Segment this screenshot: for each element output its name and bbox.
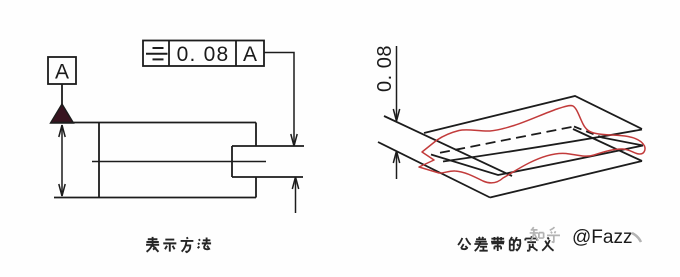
rotated dimension text 0.08 (374, 45, 396, 92)
red actual surface wavy loop (419, 106, 645, 183)
lower pointing arrow at slot bottom (292, 177, 298, 213)
lower tolerance plane back right edge (573, 129, 642, 161)
datum stem wire (61, 84, 63, 105)
median plane back right solid end (602, 138, 643, 146)
lower extension line continuing as lower plane left edge (378, 142, 490, 198)
svg-text:A: A (243, 43, 257, 66)
watermark dun comma (632, 233, 641, 242)
svg-text:@Fazz: @Fazz (572, 227, 632, 248)
part right edge upper segment (255, 123, 257, 147)
datum reference letter A in frame (243, 43, 257, 66)
part left edge (98, 123, 100, 198)
median plane front edges (431, 146, 643, 176)
part right edge lower segment (255, 177, 257, 198)
median plane hidden back edge (dashed) (440, 127, 574, 153)
dimension upper arrow (393, 46, 399, 121)
feature control frame (143, 41, 264, 67)
caption: 表示方法 (146, 237, 211, 252)
slot back wall (231, 146, 233, 177)
svg-text:0. 08: 0. 08 (374, 45, 396, 92)
tolerance value 0.08 (177, 43, 230, 66)
datum label box A (48, 57, 76, 84)
dimension lower arrow (393, 151, 399, 179)
watermark 知乎 (530, 227, 560, 242)
left dimension line with two arrowheads (59, 125, 65, 196)
symmetry symbol in frame (146, 48, 168, 59)
part top edge (54, 122, 256, 124)
center line (92, 161, 266, 163)
slot bottom surface line (232, 176, 303, 178)
caption: 公差带的定义 (458, 236, 554, 251)
upper tolerance plane bottom edge (443, 130, 642, 162)
datum triangle (filled) (51, 104, 74, 123)
svg-text:A: A (55, 61, 69, 84)
watermark @Fazz text (572, 227, 632, 248)
upper tolerance plane top and right edges (424, 96, 642, 133)
svg-text:0. 08: 0. 08 (177, 43, 230, 66)
part bottom edge (54, 197, 256, 199)
slot top surface line (232, 145, 304, 147)
upper extension line continuing as upper plane left edge (384, 116, 512, 176)
leader line from frame (264, 53, 297, 147)
lower tolerance plane bottom edge (490, 161, 642, 198)
median plane hidden back right edge (dashed) (574, 127, 602, 138)
